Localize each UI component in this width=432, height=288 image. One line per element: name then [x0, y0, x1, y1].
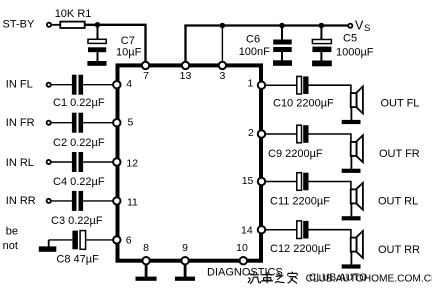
svg-text:OUT FR: OUT FR [379, 148, 420, 160]
svg-text:C10 2200µF: C10 2200µF [273, 98, 334, 110]
pin 3 [219, 62, 226, 69]
op-amp IC U1 body [118, 65, 262, 260]
wire C12 to speaker RR [309, 230, 351, 238]
svg-text:C7: C7 [121, 35, 135, 47]
svg-text:10: 10 [236, 242, 248, 254]
wire stub to pin 3 [221, 26, 223, 62]
wire IN FR to C2 [51, 122, 72, 124]
svg-text:not: not [3, 240, 18, 252]
capacitor C3 [72, 191, 77, 211]
svg-text:10K R1: 10K R1 [55, 8, 92, 20]
wire C11 to speaker RL [309, 182, 351, 190]
svg-text:IN FL: IN FL [6, 79, 33, 91]
wire C2 to pin 5 [83, 122, 113, 124]
svg-text:C12 2200µF: C12 2200µF [270, 243, 331, 255]
svg-text:13: 13 [180, 70, 192, 82]
svg-text:C1 0.22µF: C1 0.22µF [53, 97, 105, 109]
svg-text:6: 6 [126, 235, 132, 247]
wire pin 15 to C11 [266, 181, 297, 183]
wire C8 to pin 6 [86, 239, 113, 241]
pin 12 [113, 158, 120, 165]
svg-text:C3 0.22µF: C3 0.22µF [51, 215, 103, 227]
svg-text:OUT FL: OUT FL [381, 98, 420, 110]
capacitor C10 [297, 76, 302, 94]
svg-text:2: 2 [248, 127, 254, 139]
svg-text:CLUB.AUTOHOME.COM.CN: CLUB.AUTOHOME.COM.CN [306, 274, 432, 285]
wire R1 to pin 7 corner [85, 25, 146, 62]
svg-text:1000µF: 1000µF [336, 46, 374, 58]
pin 7 [142, 62, 149, 69]
speaker OUT FL [351, 93, 357, 107]
ground speaker RR [342, 264, 361, 268]
svg-text:10µF: 10µF [116, 47, 142, 59]
wire C9 to speaker FR [309, 134, 351, 142]
wire IN RL to C4 [51, 161, 72, 163]
svg-text:7: 7 [143, 70, 149, 82]
svg-text:ST-BY: ST-BY [3, 19, 35, 31]
capacitor C6 [281, 26, 283, 40]
pin 11 [113, 197, 120, 204]
capacitor C11 [297, 173, 302, 191]
node junction pin3 [220, 23, 226, 29]
svg-text:14: 14 [241, 225, 253, 237]
svg-text:OUT RR: OUT RR [378, 244, 420, 256]
svg-text:11: 11 [127, 197, 138, 209]
svg-text:C5: C5 [343, 32, 357, 44]
pin 10 [240, 257, 247, 264]
svg-text:1: 1 [248, 78, 254, 90]
svg-text:IN RR: IN RR [6, 195, 36, 207]
wire ground to C8 [49, 239, 73, 241]
pin 5 [113, 119, 120, 126]
watermark chinese 汽车之家 [248, 272, 297, 284]
pin 4 [113, 81, 120, 88]
svg-text:DIAGNOSTICS: DIAGNOSTICS [207, 267, 283, 279]
svg-text:5: 5 [128, 116, 134, 128]
svg-text:IN RL: IN RL [6, 157, 34, 169]
svg-text:C6: C6 [246, 33, 260, 45]
capacitor C8 [72, 231, 78, 250]
ground C7 [87, 61, 106, 66]
svg-text:IN FR: IN FR [6, 117, 35, 129]
wire C7 stem [97, 25, 99, 40]
capacitor C5 [320, 26, 322, 40]
svg-text:3: 3 [219, 70, 225, 82]
wire pin 2 to C9 [266, 133, 297, 135]
pin 9 [181, 257, 188, 264]
svg-text:be: be [6, 226, 18, 238]
ground speaker RL [342, 216, 361, 220]
svg-text:100nF: 100nF [239, 46, 270, 58]
speaker OUT RR [351, 238, 357, 252]
terminal IN RR [47, 199, 51, 203]
terminal IN RL [47, 160, 51, 164]
svg-text:C4 0.22µF: C4 0.22µF [53, 176, 105, 188]
svg-text:C11 2200µF: C11 2200µF [270, 196, 330, 208]
wire C4 to pin 12 [83, 161, 113, 163]
capacitor C9 [297, 125, 302, 143]
wire C1 to pin 4 [83, 84, 113, 86]
ground pin 9 [184, 263, 187, 277]
capacitor C7 [88, 39, 106, 43]
pin 2 [258, 130, 265, 137]
ground speaker FR [342, 169, 361, 173]
svg-text:9: 9 [182, 242, 188, 254]
svg-text:C2 0.22µF: C2 0.22µF [53, 137, 105, 149]
wire IN FL to C1 [51, 84, 72, 86]
wire C10 to speaker FL [309, 85, 351, 93]
svg-text:S: S [364, 23, 370, 34]
terminal IN FL [47, 83, 51, 87]
capacitor C1 [72, 75, 77, 95]
node junction C6 [279, 23, 285, 29]
ground C5 [312, 61, 332, 67]
node junction R1/C7 [95, 22, 101, 28]
ground C6 [273, 60, 292, 66]
capacitor C4 [72, 152, 77, 172]
wire IN RR to C3 [51, 200, 72, 202]
wire Vs rail [184, 24, 348, 26]
resistor R1 [60, 22, 84, 28]
pin 13 [182, 62, 189, 69]
wire pin 13 up to Vs rail [184, 25, 186, 62]
wire ST-BY terminal to R1 [52, 24, 61, 26]
node junction C5 [319, 23, 325, 29]
ground speaker FL [342, 120, 361, 124]
terminal ST-BY [47, 23, 51, 27]
ground pin 8 [145, 263, 148, 277]
pin 8 [142, 257, 149, 264]
svg-text:8: 8 [143, 242, 149, 254]
capacitor C12 [297, 221, 302, 239]
ground C8 [48, 240, 50, 247]
svg-text:OUT RL: OUT RL [378, 196, 418, 208]
speaker OUT RL [351, 189, 357, 203]
svg-text:V: V [355, 18, 364, 32]
terminal IN FR [47, 121, 51, 125]
pin 6 [113, 236, 120, 243]
svg-text:15: 15 [242, 175, 254, 187]
terminal Vs [348, 24, 352, 28]
svg-text:C8 47µF: C8 47µF [56, 253, 99, 265]
svg-text:4: 4 [126, 78, 132, 90]
wire C3 to pin 11 [83, 200, 113, 202]
speaker OUT FR [351, 142, 357, 156]
svg-text:12: 12 [126, 158, 138, 170]
pin 15 [258, 178, 265, 185]
wire pin 14 to C12 [266, 229, 297, 231]
pin 1 [258, 82, 265, 89]
svg-text:C9 2200µF: C9 2200µF [268, 148, 323, 160]
capacitor C2 [72, 113, 77, 133]
wire pin 1 to C10 [266, 84, 297, 86]
pin 14 [258, 226, 265, 233]
